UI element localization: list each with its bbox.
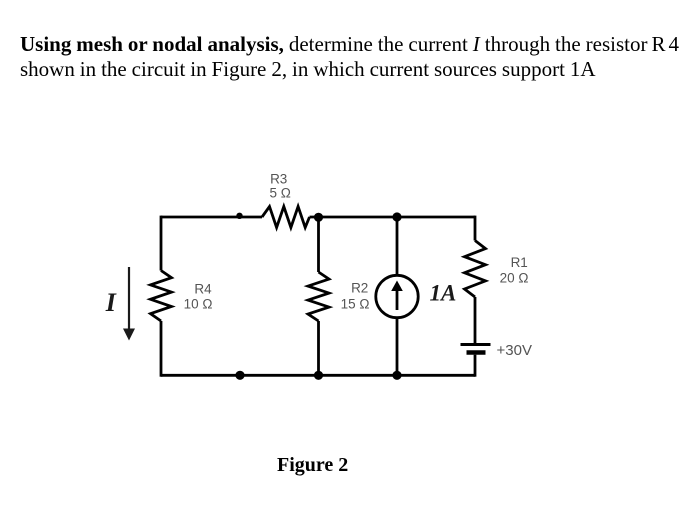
current source arrow shaft bbox=[396, 290, 399, 310]
svg-text:R4: R4 bbox=[194, 281, 212, 296]
resistor R2 bbox=[308, 272, 329, 321]
battery V1 positive plate (long) bbox=[461, 343, 491, 346]
node dot: bottom wire left bbox=[235, 371, 244, 380]
svg-text:+30V: +30V bbox=[497, 342, 532, 359]
wire: top-right horizontal segment bbox=[310, 216, 476, 219]
node dot: bottom of source branch bbox=[392, 371, 401, 380]
wire: R2 branch upper segment bbox=[317, 217, 320, 272]
resistor R1 bbox=[465, 241, 486, 298]
figure caption bbox=[277, 454, 348, 477]
resistor R3 bbox=[262, 207, 310, 228]
current arrow I head bbox=[123, 329, 135, 341]
problem statement text bbox=[20, 32, 688, 83]
wire: current-source branch upper segment bbox=[396, 217, 399, 276]
svg-text:1A: 1A bbox=[430, 281, 457, 306]
node dot: top of source branch bbox=[392, 212, 401, 221]
svg-text:20 Ω: 20 Ω bbox=[500, 270, 529, 285]
wire: right vertical upper segment bbox=[474, 216, 477, 241]
wire: bottom horizontal segment bbox=[161, 374, 475, 377]
node dot: bottom of R2 branch bbox=[314, 371, 323, 380]
wire: left vertical upper segment bbox=[160, 216, 163, 271]
svg-text:I: I bbox=[105, 288, 117, 317]
wire: top-left horizontal segment bbox=[161, 216, 262, 219]
current source 1A (circle) bbox=[376, 275, 418, 317]
wire: current-source branch lower segment bbox=[396, 318, 399, 376]
svg-text:5 Ω: 5 Ω bbox=[270, 186, 291, 201]
wire: left vertical lower segment bbox=[160, 321, 163, 377]
svg-text:R2: R2 bbox=[351, 281, 368, 296]
wire: right vertical middle segment bbox=[474, 297, 477, 343]
wire: R2 branch lower segment bbox=[317, 321, 320, 375]
current arrow I shaft bbox=[128, 267, 130, 331]
svg-text:15 Ω: 15 Ω bbox=[341, 296, 370, 311]
svg-text:R1: R1 bbox=[511, 255, 528, 270]
node dot: top wire left (small) bbox=[236, 213, 242, 219]
current source arrow head bbox=[391, 281, 403, 292]
wire: right vertical lower segment bbox=[474, 355, 477, 377]
svg-text:10 Ω: 10 Ω bbox=[184, 296, 213, 311]
svg-text:R3: R3 bbox=[270, 171, 287, 186]
node dot: top of R2 branch bbox=[314, 213, 323, 222]
battery V1 negative plate (short thick) bbox=[467, 350, 486, 355]
resistor R4 bbox=[151, 271, 172, 322]
